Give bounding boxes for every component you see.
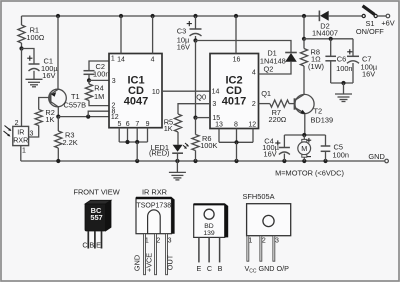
resistor R6 — [192, 118, 218, 151]
node IC2 rail — [234, 159, 238, 163]
svg-text:E: E — [96, 241, 101, 250]
label Q0 — [196, 93, 206, 102]
wire C3 node down reset column — [195, 41, 197, 118]
ground under C6 C7 — [335, 94, 352, 102]
label FRONT VIEW — [73, 188, 119, 197]
wire C3 bottom node — [195, 36, 197, 41]
node reset pin15 junction — [193, 116, 197, 120]
svg-text:4017: 4017 — [222, 96, 246, 108]
wire node to C7 — [304, 38, 353, 40]
node C3 bottom — [193, 38, 197, 42]
wire IR RXR pin1 to rail — [20, 146, 22, 161]
wire R1 top — [21, 16, 23, 25]
node IC1 pin6 bus — [125, 140, 129, 144]
svg-text:14: 14 — [117, 57, 125, 64]
wire ground bottom rail — [21, 160, 385, 162]
node C6C7 ground — [341, 81, 345, 85]
wire C3 node to D1 cathode — [196, 41, 292, 53]
node R6 rail — [193, 159, 197, 163]
svg-text:3: 3 — [168, 238, 172, 245]
terminal GND — [368, 152, 388, 163]
pin 1 label IR RXR — [22, 148, 26, 155]
wire IC1 pin10 to IC2 pin14 — [162, 90, 210, 92]
svg-text:+6V: +6V — [381, 19, 394, 28]
wire LED to rail — [177, 153, 179, 161]
wire tie to IC1 pin8 — [88, 111, 109, 116]
node R8 rail junction — [302, 14, 306, 18]
pin 2 label IR RXR — [15, 120, 19, 127]
svg-text:8: 8 — [234, 122, 238, 129]
svg-text:(1W): (1W) — [308, 62, 324, 71]
svg-text:2.2K: 2.2K — [63, 138, 78, 147]
svg-text:3: 3 — [275, 237, 279, 244]
node IC2 pin8 bus — [234, 140, 238, 144]
svg-text:16V: 16V — [42, 71, 55, 80]
node C5 rail — [323, 159, 327, 163]
wire C1 to ground — [33, 71, 35, 80]
resistor R3 — [55, 117, 78, 161]
wire +V top rail — [22, 15, 320, 17]
motor M — [298, 135, 311, 161]
transistor T2 BD139 — [295, 94, 334, 124]
svg-text:Q2: Q2 — [264, 65, 274, 74]
svg-text:1N4007: 1N4007 — [312, 29, 338, 38]
svg-text:16V: 16V — [264, 150, 277, 159]
svg-text:220Ω: 220Ω — [268, 115, 286, 124]
wire R7 to T2 base — [289, 103, 295, 105]
node C6 top — [329, 37, 333, 41]
svg-text:ON/OFF: ON/OFF — [356, 27, 384, 36]
wire T1 base — [39, 98, 51, 110]
node T1 emitter rail junction — [56, 14, 60, 18]
switch S1 — [356, 6, 386, 36]
wire T1 collector to node — [57, 107, 59, 117]
svg-text:1: 1 — [111, 55, 115, 62]
wire node to IC1 pin3 — [89, 79, 109, 81]
svg-text:FRONT VIEW: FRONT VIEW — [73, 188, 119, 197]
capacitor C5 — [321, 135, 349, 161]
label Q2 — [264, 65, 274, 74]
op-amp IC2 CD4017 box — [210, 54, 259, 129]
svg-text:+VCE: +VCE — [144, 253, 153, 272]
svg-text:C3: C3 — [177, 27, 186, 36]
svg-text:6: 6 — [126, 121, 130, 128]
node R8/C6/C7 — [302, 37, 306, 41]
label IR RXR pictorial — [142, 188, 167, 197]
wire IC2 bus to rail — [236, 142, 238, 161]
svg-text:C6: C6 — [337, 54, 346, 63]
wire IC1 pin4 to rail — [152, 16, 154, 54]
svg-text:100n: 100n — [336, 64, 352, 73]
transistor T1 C557B — [49, 89, 86, 109]
node R1/C1/IR junction — [19, 46, 23, 50]
svg-text:12: 12 — [248, 122, 256, 129]
wire IC2 pin16 to rail — [235, 16, 237, 54]
svg-text:OUT: OUT — [166, 254, 175, 270]
capacitor C1 — [27, 56, 58, 80]
wire rail to T1 emitter — [57, 16, 59, 89]
node motor top — [302, 133, 306, 137]
node LED rail — [175, 159, 179, 163]
wire R2 to IR RXR pin 3 — [29, 126, 39, 138]
svg-text:R4: R4 — [94, 83, 103, 92]
LED LED1 red — [149, 143, 189, 158]
svg-text:10: 10 — [152, 89, 160, 96]
resistor R2 — [35, 108, 55, 126]
node IC2 pin16 rail junction — [234, 14, 238, 18]
node T1 collector — [56, 115, 60, 119]
svg-text:B: B — [218, 264, 223, 273]
svg-text:139: 139 — [203, 230, 215, 237]
svg-text:2: 2 — [252, 101, 256, 108]
svg-text:SFH505A: SFH505A — [242, 192, 274, 201]
svg-text:Q1: Q1 — [261, 89, 271, 98]
capacitor C7 — [347, 39, 378, 83]
wire node down to IR RXR pin 2 — [21, 49, 23, 127]
wire C6 C7 bottoms — [331, 82, 353, 84]
wire R5 to LED — [177, 132, 179, 145]
svg-text:1K: 1K — [45, 115, 54, 124]
svg-text:Q0: Q0 — [196, 93, 206, 102]
SFH505A package drawing — [242, 192, 290, 274]
svg-text:5: 5 — [117, 121, 121, 128]
svg-text:7: 7 — [135, 121, 139, 128]
svg-text:(RED): (RED) — [149, 149, 170, 158]
svg-text:RXR: RXR — [13, 136, 28, 144]
BD139 package drawing — [194, 203, 229, 273]
node motor rail — [302, 159, 306, 163]
svg-text:M: M — [301, 144, 307, 153]
wire T2 emitter to motor node — [304, 114, 306, 135]
svg-text:16V: 16V — [362, 70, 375, 79]
resistor R1 — [18, 25, 45, 43]
pin 3 label IR RXR — [30, 131, 34, 138]
svg-text:2: 2 — [15, 120, 19, 127]
svg-text:GND: GND — [133, 255, 142, 271]
BC557 package drawing — [82, 200, 111, 249]
svg-text:E: E — [197, 264, 202, 273]
node IC1 rail — [135, 159, 139, 163]
capacitor C4 — [262, 135, 290, 161]
wire to ground — [343, 83, 345, 94]
capacitor C2 — [84, 62, 110, 79]
svg-text:14: 14 — [212, 89, 220, 96]
wire rail to C3 — [195, 16, 197, 29]
wire R6 to rail — [195, 151, 197, 162]
svg-text:1K: 1K — [164, 124, 173, 133]
node C4 rail — [282, 159, 286, 163]
wire motor top rail — [284, 134, 325, 136]
wire IC1 bottom pins bus — [119, 128, 147, 142]
wire IC2 pin3 to R5 — [178, 104, 210, 114]
svg-text:1M: 1M — [94, 92, 104, 101]
wire R1 bottom to node — [21, 43, 23, 49]
node pin8 tie — [86, 115, 90, 119]
resistor R7 — [268, 100, 289, 124]
svg-text:IR RXR: IR RXR — [142, 188, 167, 197]
wire C2 to node — [88, 74, 90, 80]
svg-text:16V: 16V — [177, 43, 190, 52]
node IC1 pin7 bus — [135, 140, 139, 144]
svg-text:IR: IR — [17, 128, 24, 136]
resistor R5 — [164, 114, 182, 133]
node R3 rail — [56, 159, 60, 163]
wire IC1 pin14 to rail — [120, 16, 122, 54]
node IC1 pin4 rail junction — [151, 14, 155, 18]
node IC1 pin14 rail junction — [119, 14, 123, 18]
ground under LED — [169, 172, 186, 180]
svg-text:T2: T2 — [314, 107, 323, 116]
svg-text:B: B — [89, 241, 94, 250]
svg-text:C: C — [82, 241, 87, 250]
label Q1 — [261, 89, 271, 98]
svg-text:13: 13 — [215, 122, 223, 129]
svg-text:100n: 100n — [93, 70, 109, 79]
wire D1 anode to IC2 pin4 — [259, 62, 292, 74]
svg-text:3: 3 — [112, 78, 116, 85]
svg-text:16: 16 — [233, 57, 241, 64]
diode D2 1N4007 — [312, 11, 362, 38]
wire junction to IC2 pin15 — [196, 117, 211, 119]
wire R8 to T2 collector — [303, 66, 305, 95]
svg-text:C557B: C557B — [64, 100, 87, 109]
svg-text:2: 2 — [262, 237, 266, 244]
svg-text:TSOP1738: TSOP1738 — [136, 202, 171, 209]
svg-text:12: 12 — [111, 114, 119, 121]
resistor R4 — [85, 80, 109, 105]
capacitor C6 — [325, 39, 352, 83]
svg-text:C: C — [207, 264, 212, 273]
wire rail to R8 node — [303, 16, 305, 39]
diode D1 1N4148 — [260, 48, 297, 65]
svg-text:1: 1 — [22, 148, 26, 155]
svg-text:3: 3 — [30, 131, 34, 138]
wire IC2 bottom pins bus — [219, 129, 253, 143]
svg-text:M=MOTOR (<6VDC): M=MOTOR (<6VDC) — [275, 169, 344, 178]
wire IC1 pin1 to C2 — [89, 61, 109, 71]
IR signal arrows — [4, 126, 12, 137]
svg-text:4: 4 — [252, 69, 256, 76]
label M=MOTOR — [275, 169, 344, 178]
terminal +6V — [381, 14, 394, 27]
op-amp IC1 CD4047 box — [109, 54, 162, 129]
wire IC1 bus to rail — [136, 142, 138, 161]
resistor R8 — [300, 39, 324, 71]
svg-text:BD: BD — [204, 223, 214, 230]
wire LED rail to ground — [176, 161, 178, 172]
svg-text:4: 4 — [151, 57, 155, 64]
wire collector node to IC1 pin12 — [58, 116, 109, 118]
svg-text:BD139: BD139 — [311, 116, 334, 125]
svg-text:557: 557 — [90, 213, 102, 222]
svg-text:100K: 100K — [200, 141, 217, 150]
svg-text:4047: 4047 — [124, 96, 148, 108]
wire IC2 pin2 to R7 — [259, 103, 270, 105]
TSOP1738 package drawing — [133, 197, 175, 275]
node C2/R4/pin3 — [87, 78, 91, 82]
svg-text:3: 3 — [212, 101, 216, 108]
wire node to C1 — [22, 49, 35, 65]
svg-text:9: 9 — [146, 121, 150, 128]
IR receiver module IRRXR — [13, 126, 29, 145]
svg-text:100n: 100n — [333, 151, 349, 160]
svg-text:100Ω: 100Ω — [26, 33, 44, 42]
svg-text:GND: GND — [368, 152, 384, 161]
ground under C1 — [26, 79, 43, 87]
node C3 rail junction — [193, 14, 197, 18]
capacitor C3 — [177, 21, 202, 52]
